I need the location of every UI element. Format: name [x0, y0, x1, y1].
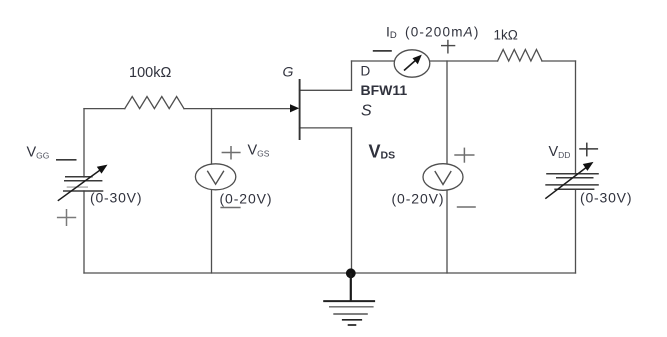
svg-text:VGG: VGG [27, 145, 50, 161]
svg-text:1kΩ: 1kΩ [494, 28, 518, 43]
svg-text:(0-30V): (0-30V) [580, 190, 632, 206]
svg-text:VDS: VDS [369, 142, 396, 162]
svg-text:(0-20V): (0-20V) [220, 191, 273, 207]
svg-text:(0-30V): (0-30V) [90, 190, 142, 206]
svg-text:G: G [283, 64, 294, 80]
svg-text:(0-200mA): (0-200mA) [405, 25, 480, 40]
svg-text:ID: ID [386, 24, 397, 42]
svg-text:BFW11: BFW11 [361, 82, 408, 98]
svg-text:100kΩ: 100kΩ [129, 65, 171, 81]
svg-text:D: D [361, 64, 371, 79]
svg-text:VGS: VGS [248, 143, 270, 159]
svg-text:(0-20V): (0-20V) [392, 191, 445, 207]
svg-text:VDD: VDD [549, 144, 571, 160]
svg-text:S: S [361, 103, 372, 120]
